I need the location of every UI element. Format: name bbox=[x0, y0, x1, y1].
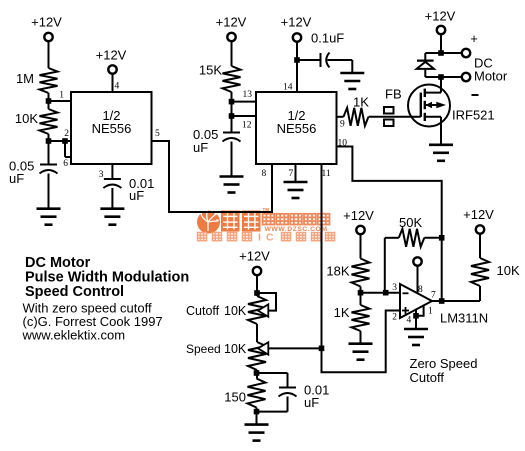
svg-text:LM311N: LM311N bbox=[440, 311, 488, 326]
svg-text:1: 1 bbox=[59, 91, 64, 101]
pin 7 stem bbox=[295, 164, 297, 182]
wire motor node to Q1 drain bbox=[440, 77, 442, 93]
power +12V P7 terminal bbox=[356, 226, 364, 234]
power +12V P3 terminal bbox=[227, 33, 235, 41]
wire node to - input bbox=[361, 292, 401, 294]
power +12V P2 terminal bbox=[108, 65, 116, 73]
wire node to pin 12 bbox=[232, 115, 257, 117]
wire output to 10K bbox=[432, 300, 480, 302]
resistor 150 bbox=[248, 379, 266, 408]
timer U2 1/2 NE556 bbox=[256, 92, 337, 164]
resistor 10K pullup bbox=[471, 258, 489, 286]
resistor 18K bbox=[352, 259, 370, 287]
wire node to diode cathode bbox=[425, 52, 441, 54]
node pin1-pin4 junction bbox=[413, 313, 419, 319]
wire cutoff to speed pot bbox=[256, 324, 258, 342]
svg-text:uF: uF bbox=[304, 395, 319, 410]
svg-text:Motor: Motor bbox=[474, 69, 508, 84]
timer U1 1/2 NE556 bbox=[71, 92, 152, 164]
speed wiper arrow bbox=[258, 342, 268, 354]
svg-text:7: 7 bbox=[289, 169, 294, 179]
svg-text:+12V: +12V bbox=[343, 208, 374, 223]
power +12V P6 terminal bbox=[253, 267, 261, 275]
svg-text:1M: 1M bbox=[16, 71, 34, 86]
node motor+ junction bbox=[438, 50, 444, 56]
pin 3 stem bbox=[111, 164, 113, 179]
svg-text:Cutoff: Cutoff bbox=[410, 370, 445, 385]
Q1 drain lead bbox=[425, 92, 441, 94]
wire P4 to pin 14 bbox=[296, 42, 298, 92]
svg-text:+12V: +12V bbox=[239, 249, 270, 264]
svg-text:10K: 10K bbox=[15, 111, 38, 126]
power +12V P1 terminal bbox=[44, 33, 52, 41]
wire C2 to ground bbox=[111, 188, 113, 209]
node pin1 junction bbox=[46, 98, 52, 104]
wire pin 9 to R 1K bbox=[337, 116, 344, 118]
ground for C4 bbox=[340, 72, 364, 75]
wire node to motor + terminal bbox=[441, 52, 462, 54]
wire node to motor - terminal bbox=[441, 76, 462, 78]
wire speed wiper to pin 11 route bbox=[268, 347, 321, 349]
resistor 15K bbox=[223, 66, 241, 92]
Q1 channel segments bbox=[424, 89, 426, 97]
svg-text:IRF521: IRF521 bbox=[452, 108, 495, 123]
resistor 1K divider bbox=[352, 305, 370, 331]
svg-text:2: 2 bbox=[392, 313, 397, 323]
node output junction bbox=[439, 298, 445, 304]
wire 150 to ground bbox=[256, 408, 258, 425]
svg-text:Speed Control: Speed Control bbox=[25, 284, 124, 300]
power +12V P4 terminal bbox=[293, 33, 301, 41]
svg-text:Speed: Speed bbox=[186, 342, 221, 356]
wire P7 to R 18K bbox=[360, 234, 362, 259]
svg-text:uF: uF bbox=[129, 188, 144, 203]
capacitor C2 0.01uF bbox=[104, 178, 121, 180]
node pin12 junction bbox=[229, 113, 235, 119]
svg-text:1K: 1K bbox=[353, 95, 369, 110]
U3 pin 8 stem bbox=[417, 266, 419, 294]
wire 10K pullup to output bbox=[479, 286, 481, 301]
Q1 body lead bbox=[425, 104, 441, 106]
svg-text:4: 4 bbox=[115, 82, 120, 92]
power +12V P5 terminal bbox=[437, 26, 445, 34]
wire 18K to 1K bbox=[360, 287, 362, 306]
svg-text:13: 13 bbox=[243, 90, 253, 100]
svg-text:18K: 18K bbox=[326, 264, 349, 279]
wire C3 to ground bbox=[231, 142, 233, 177]
wire pin 5 to pin 8 of U2 bbox=[152, 141, 273, 212]
wire P2 to pin 4 bbox=[112, 74, 114, 92]
svg-text:+12V: +12V bbox=[216, 15, 247, 30]
capacitor C1 0.05uF bbox=[40, 164, 57, 166]
svg-text:+12V: +12V bbox=[463, 207, 494, 222]
U3 pin 1 stub bbox=[416, 306, 424, 316]
svg-text:FB: FB bbox=[385, 87, 402, 102]
Q1 body arrow bbox=[425, 102, 432, 109]
wire 1K to ground bbox=[360, 331, 362, 344]
svg-text:10K: 10K bbox=[224, 342, 247, 356]
cutoff wiper tie wire bbox=[257, 293, 276, 311]
node 150 top junction bbox=[254, 370, 260, 376]
svg-text:7: 7 bbox=[431, 291, 436, 301]
wire pin 10 route bbox=[337, 147, 442, 302]
svg-text:5: 5 bbox=[155, 129, 160, 139]
motor + terminal bbox=[462, 49, 470, 57]
node 50K output junction bbox=[439, 235, 445, 241]
capacitor C4 0.1uF bbox=[320, 53, 322, 67]
wire node to pin 2 bbox=[49, 140, 72, 142]
wire Q1 source to ground bbox=[440, 117, 442, 145]
wire 1M to node pin1 bbox=[48, 93, 50, 109]
ground below U3 bbox=[404, 328, 428, 331]
ground below C2 bbox=[100, 207, 124, 210]
wire C5 to node bottom bbox=[287, 397, 289, 412]
motor minus label bbox=[472, 94, 479, 96]
ground below 150 bbox=[245, 423, 269, 426]
svg-text:150: 150 bbox=[224, 390, 246, 405]
watermark weiku dzsc logo bbox=[197, 207, 335, 244]
node cutoff top junction bbox=[254, 290, 260, 296]
svg-text:9: 9 bbox=[340, 120, 345, 130]
svg-text:Zero Speed: Zero Speed bbox=[410, 356, 478, 371]
U3 pin 4 stem bbox=[415, 310, 417, 330]
svg-text:10K: 10K bbox=[224, 304, 247, 318]
svg-text:uF: uF bbox=[193, 140, 208, 155]
transistor Q1 IRF521 body circle bbox=[408, 85, 450, 127]
svg-text:I: I bbox=[258, 232, 261, 244]
svg-text:+12V: +12V bbox=[425, 9, 456, 24]
resistor 1M bbox=[40, 68, 58, 93]
wire C1 to ground bbox=[48, 174, 50, 209]
svg-text:10K: 10K bbox=[497, 263, 520, 278]
wire node to pin 13 bbox=[232, 101, 257, 103]
wire node to C4 bbox=[297, 59, 321, 61]
node pin6 branch junction bbox=[62, 138, 68, 144]
resistor R 1K bbox=[344, 108, 369, 126]
svg-text:+12V: +12V bbox=[281, 15, 312, 30]
svg-text:6: 6 bbox=[63, 159, 68, 169]
power +12V P8 terminal bbox=[476, 225, 484, 233]
potentiometer speed 10K bbox=[248, 342, 266, 370]
wire P8 to R 10K pullup bbox=[479, 234, 481, 258]
node pin13 junction bbox=[229, 99, 235, 105]
capacitor C3 0.05uF bbox=[223, 132, 240, 134]
ground below pin 7 bbox=[284, 181, 308, 184]
wire 1K to gate through FB bbox=[369, 116, 421, 118]
wire diode anode to motor- node bbox=[424, 70, 426, 77]
svg-text:uF: uF bbox=[9, 171, 24, 186]
svg-text:8: 8 bbox=[418, 285, 423, 295]
diode D1 flyback bbox=[417, 59, 434, 61]
node divider junction bbox=[358, 290, 364, 296]
svg-text:11: 11 bbox=[322, 169, 331, 179]
node motor- junction bbox=[438, 74, 444, 80]
svg-text:4: 4 bbox=[407, 316, 412, 326]
wire pin 11 route bbox=[322, 164, 401, 372]
wire 15K to C3 bbox=[231, 92, 233, 133]
svg-text:15K: 15K bbox=[199, 63, 222, 78]
resistor 50K bbox=[399, 229, 425, 247]
svg-text:1K: 1K bbox=[334, 305, 350, 320]
wire P3 to R 15K bbox=[231, 41, 233, 66]
node wiper junction bbox=[319, 346, 325, 352]
svg-text:+: + bbox=[470, 31, 478, 46]
svg-text:2: 2 bbox=[64, 129, 69, 139]
svg-text:NE556: NE556 bbox=[277, 121, 317, 136]
wire P5 to drain node bbox=[440, 34, 442, 53]
capacitor C5 0.01uF bbox=[279, 387, 296, 389]
wire 50K left leg bbox=[385, 237, 399, 239]
wire node to C5 branch bbox=[257, 372, 288, 374]
wire C4 to ground bbox=[328, 59, 353, 61]
wire node to pin 1 bbox=[49, 100, 72, 102]
ground below C3 bbox=[220, 175, 244, 178]
wire P1 to R 1M bbox=[48, 41, 50, 68]
wire speed pot to node bbox=[256, 370, 258, 379]
node bypass junction bbox=[294, 57, 300, 63]
node pin2 junction bbox=[46, 138, 52, 144]
ground below C1 bbox=[37, 207, 61, 210]
svg-text:Cutoff: Cutoff bbox=[186, 304, 220, 318]
wire 10K to C1 node pin2 bbox=[48, 134, 50, 165]
cutoff wiper arrow bbox=[258, 304, 268, 316]
svg-text:+12V: +12V bbox=[96, 48, 127, 63]
svg-text:14: 14 bbox=[283, 82, 293, 92]
wire P6 to cutoff pot bbox=[256, 275, 258, 296]
node 150 bottom junction bbox=[254, 409, 260, 415]
ferrite bead FB bbox=[384, 107, 394, 114]
Q1 gate bar bbox=[420, 93, 422, 117]
svg-text:3: 3 bbox=[392, 283, 397, 293]
U3 pin 8 terminal bbox=[413, 257, 421, 265]
svg-text:www.eklektix.com: www.eklektix.com bbox=[22, 328, 126, 343]
svg-text:12: 12 bbox=[242, 121, 252, 131]
svg-text:0.1uF: 0.1uF bbox=[311, 31, 344, 46]
op-amp U3 LM311N bbox=[400, 284, 432, 318]
ground below 1K bbox=[349, 342, 373, 345]
svg-text:NE556: NE556 bbox=[92, 121, 132, 136]
svg-text:8: 8 bbox=[262, 169, 267, 179]
wire pin2-pin6 tie bbox=[64, 141, 66, 157]
node 50K feedback junction bbox=[383, 290, 389, 296]
Q1 diode arrow bbox=[436, 102, 446, 109]
resistor 10K bbox=[40, 109, 58, 134]
wire 50K right leg bbox=[424, 237, 441, 239]
svg-text:+12V: +12V bbox=[31, 15, 62, 30]
svg-text:C: C bbox=[266, 232, 274, 244]
motor - terminal bbox=[462, 73, 470, 81]
Q1 source lead bbox=[425, 116, 441, 118]
potentiometer cutoff 10K bbox=[248, 296, 266, 324]
svg-text:3: 3 bbox=[99, 170, 104, 180]
svg-text:1: 1 bbox=[428, 307, 433, 317]
ground below Q1 bbox=[429, 144, 453, 147]
